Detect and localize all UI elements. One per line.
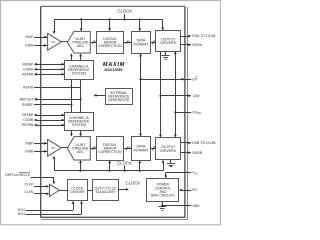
svg-text:DUTY-CYCLEEQUALIZER: DUTY-CYCLEEQUALIZER <box>95 186 117 194</box>
svg-text:CLOCK: CLOCK <box>125 180 140 185</box>
svg-text:INTERNALREFERENCEGENERATOR: INTERNALREFERENCEGENERATOR <box>108 91 130 102</box>
svg-text:VCC: VCC <box>192 171 198 176</box>
svg-text:INBN: INBN <box>25 150 33 154</box>
svg-text:DIV4: DIV4 <box>18 212 25 216</box>
svg-text:D0A TO D13A: D0A TO D13A <box>192 34 216 38</box>
svg-text:INAP: INAP <box>25 35 33 39</box>
svg-text:COMB: COMB <box>23 118 34 122</box>
svg-text:PD: PD <box>192 188 197 192</box>
svg-text:REFIN: REFIN <box>23 86 34 90</box>
svg-text:GND: GND <box>192 204 200 208</box>
svg-text:INBP: INBP <box>25 142 33 146</box>
svg-text:CLOCK: CLOCK <box>117 9 132 14</box>
svg-text:REFBP: REFBP <box>22 113 34 117</box>
svg-text:OVDD: OVDD <box>192 110 201 115</box>
svg-text:CLKN: CLKN <box>24 190 33 194</box>
svg-text:REFAN: REFAN <box>22 72 34 76</box>
svg-text:DORB: DORB <box>192 151 203 155</box>
svg-text:SHREF: SHREF <box>22 103 33 107</box>
svg-text:OUTPUTDRIVERS: OUTPUTDRIVERS <box>160 145 176 153</box>
svg-text:CLOCKDIVIDER: CLOCKDIVIDER <box>70 186 85 194</box>
svg-text:DORA: DORA <box>192 43 203 47</box>
svg-text:REFBN: REFBN <box>22 123 34 127</box>
svg-text:REFAP: REFAP <box>22 62 34 66</box>
svg-text:DAV: DAV <box>193 94 200 98</box>
svg-text:T/H: T/H <box>51 146 55 150</box>
svg-text:T/H: T/H <box>51 40 55 44</box>
svg-text:CLKP: CLKP <box>25 182 34 186</box>
svg-text:G/T: G/T <box>192 77 198 81</box>
svg-text:MAX12559: MAX12559 <box>104 68 122 72</box>
svg-text:INAN: INAN <box>25 44 33 48</box>
svg-text:OUTPUTDRIVERS: OUTPUTDRIVERS <box>160 37 176 45</box>
svg-text:D0B TO D13B: D0B TO D13B <box>192 141 216 145</box>
svg-text:DIFFCLK/SECLK: DIFFCLK/SECLK <box>5 173 30 177</box>
svg-text:CLOCK: CLOCK <box>117 160 132 165</box>
svg-text:REFOUT: REFOUT <box>20 98 34 102</box>
svg-text:COMA: COMA <box>23 67 34 71</box>
